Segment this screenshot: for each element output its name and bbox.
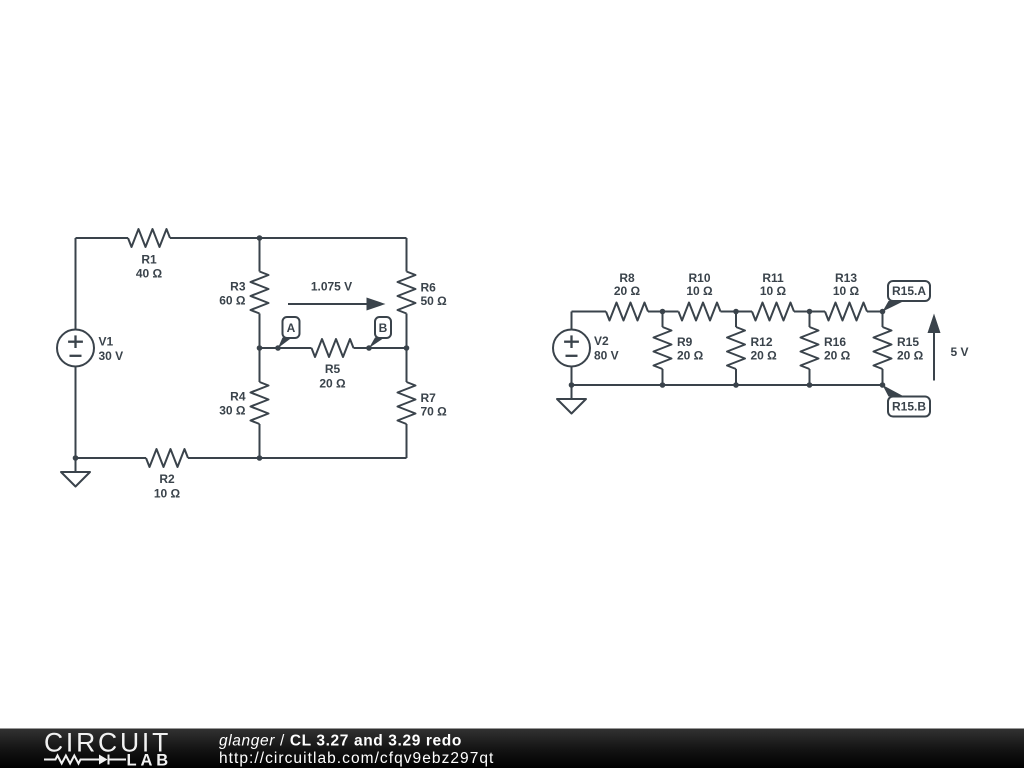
wire: R3 leads (259, 238, 261, 272)
wire: top rail left (V1 top to R1 left) (76, 237, 129, 239)
svg-text:R2: R2 (159, 472, 175, 486)
svg-text:R15: R15 (897, 335, 919, 349)
svg-text:10 Ω: 10 Ω (154, 487, 181, 501)
resistor R11 (752, 303, 794, 321)
wire: R9 leads (662, 312, 664, 328)
svg-text:20 Ω: 20 Ω (677, 349, 704, 363)
svg-text:1.075 V: 1.075 V (311, 280, 352, 294)
svg-text:40 Ω: 40 Ω (136, 267, 163, 281)
resistor R9 (654, 327, 672, 369)
svg-text:R8: R8 (619, 271, 635, 285)
resistor R7 (398, 382, 416, 424)
wire: V2 bottom lead (571, 367, 573, 386)
node: right middle junction (404, 345, 410, 351)
wire: R12 leads (735, 312, 737, 328)
svg-text:80 V: 80 V (594, 349, 619, 363)
svg-text:R13: R13 (835, 271, 857, 285)
voltage source V1 (57, 330, 94, 367)
svg-text:20 Ω: 20 Ω (897, 349, 924, 363)
svg-text:R5: R5 (325, 362, 341, 376)
wire: middle rail (junction to R5 and to right) (260, 347, 312, 349)
flag R15.A pointer (883, 301, 905, 312)
wire: top rail V2 to R8 (572, 311, 607, 313)
node: top node R15 (880, 309, 886, 315)
svg-text:30 V: 30 V (99, 349, 124, 363)
node: top junction (257, 235, 263, 241)
resistor R8 (606, 303, 648, 321)
node: bottom junction (257, 455, 263, 461)
wire: R8 to node 1 (648, 311, 663, 313)
svg-text:R12: R12 (751, 335, 773, 349)
flag R15.A box (888, 281, 930, 301)
svg-text:R15.A: R15.A (892, 284, 926, 298)
wire: node2 to R11 to node3 (736, 311, 752, 313)
svg-text:R9: R9 (677, 335, 693, 349)
svg-text:R3: R3 (230, 280, 246, 294)
svg-text:10 Ω: 10 Ω (833, 284, 860, 298)
resistor R5 (312, 339, 354, 357)
flag R15.B box (888, 397, 930, 417)
node: top node R9 (660, 309, 666, 315)
svg-text:30 Ω: 30 Ω (219, 404, 246, 418)
svg-text:http://circuitlab.com/cfqv9ebz: http://circuitlab.com/cfqv9ebz297qt (219, 750, 494, 767)
wire: node1 to R10 to node2 (663, 311, 679, 313)
resistor R10 (679, 303, 721, 321)
flag node B box (375, 317, 391, 338)
flag node A box (283, 317, 300, 338)
svg-text:10 Ω: 10 Ω (686, 284, 713, 298)
flag node B pointer (369, 338, 385, 349)
CircuitLab logo resistor-diode glyph (44, 756, 99, 764)
node: bottom node R9 (660, 382, 666, 388)
svg-text:glanger / CL 3.27 and 3.29 red: glanger / CL 3.27 and 3.29 redo (219, 733, 462, 750)
svg-text:20 Ω: 20 Ω (751, 349, 778, 363)
svg-text:A: A (287, 321, 296, 335)
node B terminal dot (366, 345, 372, 351)
node A terminal dot (275, 345, 281, 351)
svg-text:10 Ω: 10 Ω (760, 284, 787, 298)
voltage source V2 (553, 330, 590, 367)
svg-text:70 Ω: 70 Ω (421, 405, 448, 419)
svg-text:R4: R4 (230, 390, 246, 404)
resistor R13 (825, 303, 867, 321)
annotation arrow 5 V (933, 332, 935, 381)
svg-text:50 Ω: 50 Ω (421, 294, 448, 308)
wire: bottom rail from junction to right rail (260, 457, 407, 459)
wire: top rail from center junction to right rail (260, 237, 407, 239)
wire: node3 to R13 to node4 (810, 311, 826, 313)
svg-text:R10: R10 (688, 271, 710, 285)
wire: V2 top lead (571, 312, 573, 330)
svg-text:60 Ω: 60 Ω (219, 294, 246, 308)
wire: R4 leads (259, 348, 261, 382)
svg-text:20 Ω: 20 Ω (614, 284, 641, 298)
resistor R3 (251, 272, 269, 314)
wire: R7 leads (406, 348, 408, 382)
ground symbol (left circuit) (75, 458, 77, 472)
svg-text:R16: R16 (824, 335, 846, 349)
annotation arrow 1.075 V (288, 303, 368, 305)
wire: R6 leads (406, 238, 408, 272)
svg-text:R7: R7 (421, 391, 437, 405)
node: top node R16 (807, 309, 813, 315)
svg-text:R11: R11 (762, 271, 784, 285)
resistor R16 (801, 327, 819, 369)
wire: top rail from R1 to center junction (170, 237, 260, 239)
footer bar (0, 729, 1024, 768)
resistor R15 (874, 327, 892, 369)
resistor R12 (727, 327, 745, 369)
svg-text:R6: R6 (421, 281, 437, 295)
resistor R4 (251, 382, 269, 424)
node: ground tee right (569, 382, 575, 388)
node: bottom node R12 (733, 382, 739, 388)
node: ground tee left (73, 455, 79, 461)
node: bottom node R15 (880, 382, 886, 388)
wire: left rail (V1 to bottom) (75, 367, 77, 459)
wire: R15 leads (882, 312, 884, 328)
wire: R16 leads (809, 312, 811, 328)
svg-text:V1: V1 (99, 335, 114, 349)
svg-text:LAB: LAB (127, 752, 173, 768)
svg-text:B: B (379, 321, 388, 335)
node: middle junction at R3/R4 (257, 345, 263, 351)
flag R15.B pointer (883, 385, 905, 397)
svg-text:V2: V2 (594, 334, 609, 348)
resistor R2 (146, 449, 188, 467)
wire: bottom rail left (to R2) (76, 457, 147, 459)
node: bottom node R16 (807, 382, 813, 388)
svg-text:R15.B: R15.B (892, 400, 926, 414)
ground symbol (right circuit) (571, 385, 573, 399)
node: top node R12 (733, 309, 739, 315)
svg-text:5 V: 5 V (951, 345, 969, 359)
svg-text:20 Ω: 20 Ω (319, 377, 346, 391)
resistor R1 (128, 229, 170, 247)
wire: left rail (top to V1) (75, 238, 77, 330)
wire: bottom rail right circuit (572, 384, 883, 386)
flag node A pointer (278, 338, 292, 349)
wire: bottom rail from R2 to bottom junction (188, 457, 260, 459)
svg-text:20 Ω: 20 Ω (824, 349, 851, 363)
svg-text:R1: R1 (141, 253, 157, 267)
resistor R6 (398, 272, 416, 314)
